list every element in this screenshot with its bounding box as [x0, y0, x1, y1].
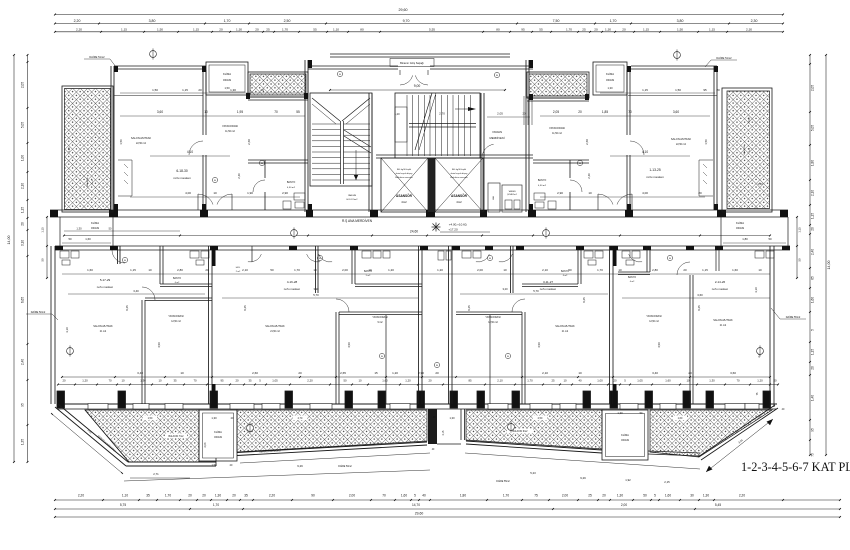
balcony hatch top-left	[62, 86, 113, 212]
svg-text:2,20: 2,20	[307, 379, 313, 383]
svg-text:1,50: 1,50	[704, 139, 708, 145]
svg-text:derin kuyulu düşey: derin kuyulu düşey	[451, 173, 468, 175]
elevator U1	[381, 158, 428, 212]
right dimension chain outer 14.00	[825, 55, 827, 455]
svg-text:no'lu mesken: no'lu mesken	[284, 287, 301, 291]
svg-text:2,40: 2,40	[587, 173, 591, 179]
lower band outer walls	[54, 246, 56, 404]
svg-text:2,00: 2,00	[562, 494, 568, 498]
svg-text:5: 5	[414, 494, 416, 498]
svg-text:BALKON: BALKON	[743, 145, 746, 154]
svg-text:1,30: 1,30	[449, 416, 455, 420]
svg-text:10: 10	[204, 110, 208, 114]
svg-text:35: 35	[244, 494, 248, 498]
svg-text:1,30: 1,30	[230, 88, 236, 92]
corridor band double doors left	[198, 194, 213, 205]
svg-text:20: 20	[613, 379, 617, 383]
left wing outer walls	[113, 66, 115, 210]
bottom wall windows	[88, 404, 108, 410]
svg-text:70: 70	[274, 110, 278, 114]
svg-text:1,30: 1,30	[607, 86, 613, 90]
door arc banyo left	[253, 180, 265, 192]
svg-text:1,50: 1,50	[675, 88, 681, 92]
unit3 hol wall	[512, 246, 514, 293]
unit2 wc fixtures	[362, 251, 371, 258]
svg-text:50: 50	[768, 237, 772, 241]
svg-text:20: 20	[260, 88, 264, 92]
svg-text:2,10: 2,10	[497, 379, 503, 383]
svg-text:ODASI: ODASI	[606, 78, 615, 82]
svg-text:6-18-30: 6-18-30	[176, 169, 188, 173]
svg-text:70: 70	[628, 110, 632, 114]
svg-text:1,40: 1,40	[811, 395, 815, 401]
svg-text:5,75: 5,75	[120, 503, 126, 507]
unit2 hall wall	[385, 315, 387, 404]
svg-text:7,50: 7,50	[553, 19, 560, 23]
apartments bottom wall	[57, 403, 777, 405]
svg-text:5,23: 5,23	[530, 471, 536, 475]
svg-text:2,40: 2,40	[811, 249, 815, 255]
svg-text:1,15: 1,15	[41, 227, 45, 233]
svg-text:2,20: 2,20	[269, 494, 275, 498]
balcony hatch bottom H2	[237, 410, 427, 452]
svg-text:4m2: 4m2	[401, 200, 407, 204]
balcony edge mid-left slope	[237, 442, 427, 453]
svg-text:1,20: 1,20	[405, 379, 411, 383]
svg-text:3,20: 3,20	[502, 287, 508, 291]
svg-text:1,90: 1,90	[247, 191, 253, 195]
svg-text:95: 95	[811, 428, 815, 432]
svg-text:1,30: 1,30	[215, 494, 221, 498]
svg-text:1,70: 1,70	[224, 19, 231, 23]
svg-text:2,60: 2,60	[247, 139, 251, 145]
svg-text:2,10: 2,10	[542, 371, 548, 375]
svg-text:1,10: 1,10	[122, 494, 128, 498]
svg-text:ODASI: ODASI	[621, 438, 629, 442]
svg-text:20: 20	[578, 110, 582, 114]
svg-text:2,71: 2,71	[153, 472, 159, 476]
svg-text:no'lu mesken: no'lu mesken	[173, 176, 191, 180]
svg-text:800 kg/10 kişilik: 800 kg/10 kişilik	[452, 169, 466, 171]
svg-text:20: 20	[198, 88, 202, 92]
svg-text:YATAKODASI: YATAKODASI	[549, 126, 565, 130]
svg-text:2,05: 2,05	[21, 82, 25, 88]
svg-text:+4.00,+10.60,: +4.00,+10.60,	[449, 223, 468, 227]
svg-text:3,90: 3,90	[313, 287, 319, 291]
klima room top-right wing	[593, 62, 627, 95]
svg-text:5,55: 5,55	[429, 27, 435, 31]
svg-text:1,30: 1,30	[140, 379, 146, 383]
svg-text:40: 40	[578, 379, 582, 383]
unit3 bedroom walls	[521, 312, 523, 404]
svg-text:5,05: 5,05	[811, 125, 815, 131]
svg-text:ASANSÖR: ASANSÖR	[396, 193, 413, 198]
svg-text:10: 10	[358, 379, 362, 383]
svg-text:DAİRE 50m2: DAİRE 50m2	[338, 465, 352, 468]
svg-text:2,80: 2,80	[652, 268, 658, 272]
svg-text:3,60: 3,60	[697, 293, 703, 297]
svg-text:10: 10	[758, 268, 762, 272]
svg-text:4,00: 4,00	[185, 191, 191, 195]
svg-text:2,20: 2,20	[76, 27, 82, 31]
svg-text:22,50 m2: 22,50 m2	[136, 142, 147, 145]
svg-text:3,40: 3,40	[133, 289, 139, 293]
left wing kitchen counter	[118, 159, 132, 161]
svg-text:50: 50	[68, 237, 72, 241]
balcony outer dim line left	[52, 414, 122, 473]
svg-text:20: 20	[202, 494, 206, 498]
svg-text:2,15: 2,15	[664, 480, 670, 484]
right wing outer walls	[716, 66, 718, 210]
svg-text:3,10: 3,10	[21, 240, 25, 246]
main stair right flight	[395, 93, 480, 158]
svg-text:1,10: 1,10	[333, 27, 339, 31]
title diagonal dim line	[706, 419, 773, 472]
svg-text:4,10: 4,10	[187, 150, 193, 154]
svg-text:5,45: 5,45	[715, 503, 721, 507]
svg-text:80: 80	[496, 27, 500, 31]
margin mini chains	[46, 217, 48, 278]
left wing wall under small hatch	[248, 96, 308, 98]
svg-text:2,10: 2,10	[242, 268, 248, 272]
left wing room divider wall	[202, 70, 204, 135]
svg-text:50: 50	[343, 379, 347, 383]
svg-text:10: 10	[503, 268, 507, 272]
svg-text:1,20: 1,20	[392, 371, 398, 375]
svg-text:DAİRE 55m2: DAİRE 55m2	[496, 480, 510, 483]
svg-text:1,95: 1,95	[237, 110, 243, 114]
svg-text:DAİRE 55m2: DAİRE 55m2	[786, 316, 801, 319]
balcony hatch left border	[85, 410, 129, 462]
svg-text:80: 80	[360, 27, 364, 31]
svg-text:1,00: 1,00	[21, 155, 25, 161]
svg-text:BANYO: BANYO	[538, 179, 547, 182]
svg-text:10: 10	[686, 379, 690, 383]
svg-text:95: 95	[521, 27, 525, 31]
svg-text:4m2: 4m2	[456, 200, 462, 204]
svg-text:1,00: 1,00	[597, 379, 603, 383]
svg-text:20: 20	[205, 268, 209, 272]
svg-text:10: 10	[313, 268, 317, 272]
elevator U2	[435, 158, 483, 212]
svg-text:BANYO: BANYO	[628, 276, 636, 279]
svg-text:BALKON: BALKON	[86, 177, 89, 186]
svg-text:1,70: 1,70	[282, 27, 288, 31]
svg-text:2,50: 2,50	[284, 19, 291, 23]
svg-text:20: 20	[811, 366, 815, 370]
svg-text:1,15: 1,15	[121, 27, 127, 31]
svg-text:ODASI: ODASI	[223, 78, 232, 82]
svg-text:3,60: 3,60	[157, 110, 163, 114]
svg-text:80: 80	[579, 163, 581, 165]
svg-text:2,05: 2,05	[497, 112, 503, 116]
svg-text:10: 10	[618, 268, 622, 272]
svg-text:SALON-MUTFAK: SALON-MUTFAK	[671, 137, 691, 141]
svg-text:40: 40	[422, 494, 426, 498]
svg-text:21,50 m2: 21,50 m2	[270, 331, 280, 333]
svg-text:1,30: 1,30	[617, 494, 623, 498]
svg-text:2,60: 2,60	[252, 371, 258, 375]
svg-text:2,70: 2,70	[439, 112, 445, 116]
svg-text:1,10: 1,10	[67, 147, 71, 153]
unit3 banyo walls	[577, 246, 579, 284]
svg-text:14,00: 14,00	[827, 261, 831, 270]
svg-text:4,50 m2: 4,50 m2	[287, 187, 296, 189]
svg-text:ODASI: ODASI	[214, 435, 222, 439]
svg-text:11,50 m2: 11,50 m2	[225, 130, 235, 133]
svg-text:1,15: 1,15	[642, 88, 648, 92]
svg-text:SALON-MUTFAK: SALON-MUTFAK	[265, 325, 285, 328]
balcony hatch bottom H4	[650, 410, 772, 457]
svg-text:29,60: 29,60	[415, 512, 424, 516]
svg-text:70: 70	[193, 379, 197, 383]
svg-text:1,30: 1,30	[76, 227, 82, 231]
svg-text:2,15: 2,15	[442, 430, 445, 435]
svg-text:65: 65	[811, 276, 815, 280]
svg-text:80: 80	[214, 180, 216, 182]
svg-text:21 m2: 21 m2	[100, 331, 107, 333]
svg-text:10: 10	[180, 371, 184, 375]
svg-text:20: 20	[716, 88, 720, 92]
svg-text:55: 55	[296, 110, 300, 114]
svg-text:21 m2: 21 m2	[720, 325, 727, 327]
svg-text:1,80: 1,80	[811, 160, 815, 166]
left dimension chain outer 14.00	[13, 55, 15, 462]
svg-text:10: 10	[158, 379, 162, 383]
svg-text:95: 95	[21, 403, 25, 407]
svg-text:29,60: 29,60	[399, 8, 408, 12]
svg-text:3,80: 3,80	[677, 19, 684, 23]
svg-text:YANGIN: YANGIN	[508, 190, 516, 193]
svg-text:80: 80	[669, 258, 671, 260]
corridor dim line left	[64, 230, 180, 232]
svg-text:25: 25	[582, 27, 586, 31]
unit1 bedroom walls	[141, 300, 143, 404]
svg-text:1,15: 1,15	[811, 213, 815, 219]
unit1 banyo walls	[159, 246, 161, 284]
fire lobby rooms	[488, 183, 500, 212]
svg-text:YANGIN: YANGIN	[348, 194, 357, 197]
svg-text:1,70: 1,70	[566, 27, 572, 31]
svg-text:20: 20	[773, 379, 777, 383]
svg-text:1,60: 1,60	[732, 268, 738, 272]
svg-text:10: 10	[588, 191, 592, 195]
svg-text:15: 15	[374, 371, 378, 375]
svg-text:1,60: 1,60	[87, 268, 93, 272]
svg-text:35: 35	[248, 379, 252, 383]
svg-text:2,20: 2,20	[78, 494, 84, 498]
svg-text:1,60: 1,60	[85, 237, 91, 241]
unit1 wc fixtures	[190, 251, 199, 258]
svg-text:derin kuyulu düşey: derin kuyulu düşey	[396, 173, 413, 175]
svg-text:ODASI: ODASI	[91, 226, 100, 230]
svg-text:1,30: 1,30	[211, 416, 217, 420]
balcony edge left slant	[58, 404, 128, 462]
svg-text:20: 20	[232, 494, 236, 498]
svg-text:1,30: 1,30	[709, 379, 715, 383]
svg-text:9,70: 9,70	[403, 19, 410, 23]
bottom dimension chain row1	[55, 499, 840, 501]
svg-text:14,00: 14,00	[7, 236, 11, 245]
svg-text:1,92: 1,92	[625, 478, 631, 482]
svg-text:20: 20	[688, 371, 692, 375]
balcony hatch bottom H1	[85, 410, 199, 462]
svg-text:1,30: 1,30	[236, 27, 242, 31]
top dimension chain row2	[55, 31, 783, 33]
balcony dims right	[465, 453, 700, 469]
svg-text:1,50: 1,50	[148, 417, 153, 420]
svg-text:no'lu mesken: no'lu mesken	[646, 175, 664, 179]
svg-text:1,15: 1,15	[130, 268, 136, 272]
balcony edge mid-right slope	[466, 441, 602, 450]
svg-text:4,50 m2: 4,50 m2	[538, 185, 547, 187]
svg-text:2,10: 2,10	[21, 183, 25, 189]
klima room top-left wing	[206, 62, 248, 95]
apartments top wall	[55, 245, 790, 247]
svg-text:SALON-MUTFAK: SALON-MUTFAK	[555, 325, 575, 328]
svg-text:25: 25	[266, 27, 270, 31]
svg-text:12,50 m2: 12,50 m2	[488, 322, 498, 324]
svg-text:75: 75	[534, 494, 538, 498]
right dimension chain inner	[809, 55, 811, 455]
stair core wall	[371, 93, 373, 212]
entrance door arcs	[400, 75, 413, 85]
svg-text:9,29: 9,29	[297, 464, 303, 468]
balcony labels on hatch	[165, 434, 187, 439]
entrance canopy	[330, 53, 510, 55]
svg-text:50: 50	[798, 258, 802, 261]
door arc right wing divider	[630, 141, 644, 155]
svg-text:1-13-25: 1-13-25	[649, 168, 661, 172]
svg-text:95: 95	[220, 379, 224, 383]
svg-text:2,50: 2,50	[538, 417, 543, 420]
svg-text:Mak.daire asansörü: Mak.daire asansörü	[395, 177, 413, 179]
svg-text:6,25: 6,25	[243, 305, 247, 311]
svg-text:2,30: 2,30	[746, 27, 752, 31]
svg-text:1,60: 1,60	[401, 494, 407, 498]
svg-text:YANGIN: YANGIN	[492, 130, 502, 134]
svg-text:2,03: 2,03	[204, 442, 207, 447]
unit2 bedroom walls	[335, 312, 337, 404]
svg-text:20: 20	[622, 27, 626, 31]
svg-text:2,40: 2,40	[21, 359, 25, 365]
unit4 banyo walls	[646, 246, 648, 272]
svg-text:5,05: 5,05	[21, 122, 25, 128]
unit4 wc fixtures	[622, 251, 630, 258]
svg-text:3,60: 3,60	[730, 371, 736, 375]
svg-text:1,70: 1,70	[503, 494, 509, 498]
core left wall	[307, 60, 309, 212]
svg-text:1,35: 1,35	[21, 439, 25, 445]
svg-text:5: 5	[654, 494, 656, 498]
right wing banyo walls	[533, 159, 589, 161]
svg-text:80: 80	[319, 258, 321, 260]
svg-text:11,50 m2: 11,50 m2	[552, 132, 562, 135]
svg-text:20: 20	[298, 371, 302, 375]
svg-text:55: 55	[313, 27, 317, 31]
svg-text:1,70: 1,70	[165, 494, 171, 498]
svg-text:1,60: 1,60	[665, 379, 671, 383]
svg-text:50: 50	[270, 268, 274, 272]
right wing bulkhead line	[628, 95, 717, 97]
svg-text:10: 10	[368, 268, 372, 272]
svg-text:YATAKODASI: YATAKODASI	[372, 316, 388, 319]
svg-text:6,25: 6,25	[467, 305, 471, 311]
svg-text:1,15: 1,15	[182, 88, 188, 92]
svg-text:YATAKODASI: YATAKODASI	[168, 315, 184, 318]
svg-text:10: 10	[213, 191, 217, 195]
svg-text:80: 80	[496, 75, 498, 77]
svg-text:80: 80	[507, 356, 509, 358]
svg-text:70: 70	[736, 379, 740, 383]
unit1 entry door arc	[112, 250, 125, 263]
svg-text:no'lu mesken: no'lu mesken	[540, 287, 557, 291]
svg-text:Binanın Giriş Saçağı: Binanın Giriş Saçağı	[400, 61, 424, 65]
svg-text:YATAKODASI: YATAKODASI	[646, 315, 662, 318]
svg-text:4,50: 4,50	[157, 342, 161, 348]
svg-text:6,65: 6,65	[21, 297, 25, 303]
svg-text:800 kg/10 kişilik: 800 kg/10 kişilik	[397, 169, 411, 171]
svg-text:1,60: 1,60	[811, 297, 815, 303]
svg-text:20: 20	[811, 227, 815, 231]
svg-text:2,00: 2,00	[621, 503, 627, 507]
svg-text:2,10: 2,10	[811, 190, 815, 196]
svg-text:1,05: 1,05	[272, 379, 278, 383]
svg-text:2,05: 2,05	[811, 85, 815, 91]
svg-text:2,80: 2,80	[177, 268, 183, 272]
axis marker circles	[150, 51, 157, 58]
unit3 hall wall	[489, 315, 491, 404]
svg-text:SALON-MUTFAK: SALON-MUTFAK	[131, 136, 151, 140]
right wing room divider wall	[626, 70, 628, 135]
svg-text:70: 70	[382, 494, 386, 498]
balcony hatch small right	[527, 72, 589, 98]
wall junction blocks upper band	[114, 66, 118, 72]
svg-text:1,50: 1,50	[157, 27, 163, 31]
svg-text:HOL: HOL	[236, 267, 241, 269]
svg-text:10: 10	[563, 379, 567, 383]
svg-text:10: 10	[148, 268, 152, 272]
svg-text:20: 20	[219, 27, 223, 31]
svg-text:50: 50	[41, 258, 45, 261]
bottom dimension chain row2	[55, 508, 840, 510]
svg-text:1,15: 1,15	[709, 27, 715, 31]
svg-text:75: 75	[811, 453, 815, 457]
klima box bottom-left	[199, 410, 237, 461]
svg-text:+17.20: +17.20	[448, 228, 458, 232]
svg-text:3,80: 3,80	[149, 19, 156, 23]
door tag circles	[337, 71, 342, 76]
door arc left wing divider	[189, 141, 203, 155]
corridor slab band	[50, 209, 788, 211]
svg-text:1,05: 1,05	[637, 379, 643, 383]
svg-text:2,00: 2,00	[349, 494, 355, 498]
svg-text:2,70: 2,70	[298, 417, 303, 420]
left dimension chain inner	[27, 55, 29, 462]
svg-text:no'lu mesken: no'lu mesken	[712, 287, 729, 291]
svg-text:3,40: 3,40	[137, 371, 143, 375]
svg-text:9 m2: 9 m2	[377, 322, 383, 324]
svg-text:2,00: 2,00	[477, 268, 483, 272]
svg-text:6,25: 6,25	[125, 305, 129, 311]
svg-text:2,90: 2,90	[282, 191, 288, 195]
svg-text:5-17-29: 5-17-29	[100, 278, 111, 282]
svg-text:1,70: 1,70	[294, 268, 300, 272]
svg-text:1,60: 1,60	[678, 417, 683, 420]
svg-text:50: 50	[643, 494, 647, 498]
svg-text:BANYO: BANYO	[287, 181, 296, 184]
svg-text:1,20: 1,20	[757, 379, 763, 383]
